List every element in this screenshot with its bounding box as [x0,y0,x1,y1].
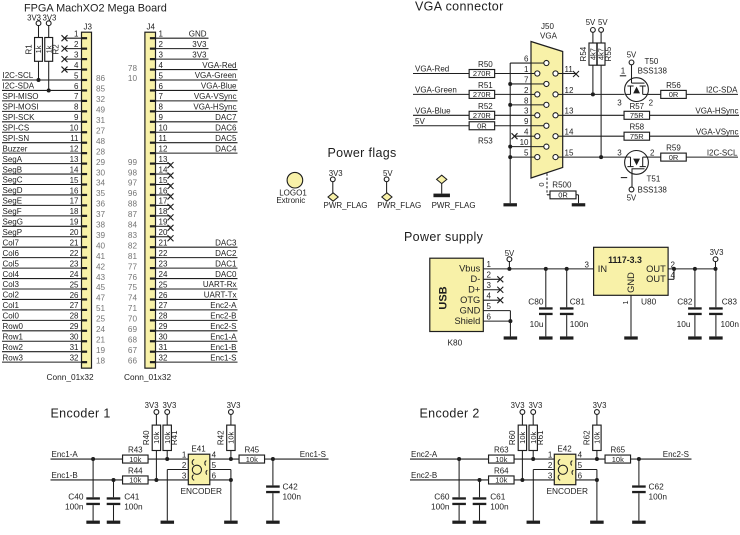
svg-text:10k: 10k [246,455,258,464]
svg-text:DAC7: DAC7 [215,113,237,122]
svg-text:R43: R43 [128,446,143,455]
svg-text:11: 11 [159,134,168,143]
svg-text:3V3: 3V3 [162,401,176,410]
J4 pin 21 DAC3 [150,246,156,248]
svg-text:10k: 10k [152,432,161,444]
capacitor C81 100n [565,267,569,271]
svg-text:51: 51 [96,304,106,313]
svg-text:SegB: SegB [3,165,23,174]
encoder E41 pin4 wire [210,458,239,460]
svg-text:15: 15 [159,176,168,185]
svg-text:10: 10 [520,138,529,147]
J4 pin 24 DAC0 [150,277,156,279]
svg-text:SegC: SegC [3,176,23,185]
svg-text:16: 16 [159,186,168,195]
encoder E42 pin2 ground wire [533,469,554,471]
svg-text:Buzzer: Buzzer [3,144,28,153]
svg-text:10k: 10k [129,455,141,464]
svg-text:0R: 0R [477,121,487,130]
svg-text:10k: 10k [593,432,602,444]
J50 pin 14 circle [553,134,558,139]
encoder E41 symbol [192,465,201,474]
svg-text:VGA: VGA [540,32,558,41]
svg-text:Enc1-S: Enc1-S [210,353,236,362]
T51 gate dash [621,177,627,179]
J3 pin 19 SegG [82,225,88,227]
svg-text:3: 3 [182,471,187,480]
svg-text:3: 3 [524,107,529,116]
svg-text:21: 21 [70,239,79,248]
svg-text:78: 78 [128,64,138,73]
svg-text:28: 28 [96,147,106,156]
resistor R64 10k [489,476,515,484]
svg-text:42: 42 [96,262,106,271]
label 5V to R53 [413,125,469,127]
junction C40 [91,457,95,461]
svg-text:R50: R50 [478,60,493,69]
svg-text:1117-3.3: 1117-3.3 [608,255,642,265]
resistor R53 0R [469,122,495,130]
J50 pin 11 circle [553,71,558,76]
ground (U80) [624,336,638,339]
J4 pin 32 Enc1-S [150,361,156,363]
svg-text:PWR_FLAG: PWR_FLAG [432,201,476,210]
svg-text:PWR_FLAG: PWR_FLAG [377,201,421,210]
label Enc2-S [639,458,692,460]
svg-text:25: 25 [159,280,168,289]
svg-text:Vbus: Vbus [459,264,481,274]
wire pin15 to T51 [563,156,626,158]
svg-text:OUT: OUT [646,274,666,284]
J3 pin 23 Col5 [82,267,88,269]
svg-text:28: 28 [159,312,168,321]
svg-text:R54: R54 [579,46,588,61]
svg-text:R40: R40 [142,430,151,445]
svg-text:39: 39 [96,231,106,240]
svg-text:6: 6 [74,82,79,91]
J50 pin 3 circle [535,113,540,118]
svg-text:18: 18 [70,207,79,216]
svg-text:2: 2 [548,461,553,470]
wire pin7 [510,83,531,85]
svg-text:IN: IN [598,264,607,274]
svg-text:VGA-Green: VGA-Green [195,71,237,80]
J3 pin 30 Row1 [82,340,88,342]
svg-text:Enc2-B: Enc2-B [210,312,236,321]
label VGA-Green [413,93,469,95]
svg-text:37: 37 [96,210,106,219]
J4 pin 28 Enc2-B [150,319,156,321]
J4 pin 25 UART-Rx [150,288,156,290]
svg-text:270R: 270R [473,90,492,99]
svg-text:I2C-SCL: I2C-SCL [707,148,738,157]
U80 OUT wires [668,268,715,270]
encoder E42 body [554,454,576,485]
resistor R43 10k [123,455,149,463]
svg-text:75R: 75R [630,132,644,141]
svg-text:Col5: Col5 [3,259,20,268]
svg-text:2: 2 [649,98,654,107]
label Enc1-B [51,479,123,481]
J4 pin 15 NC [150,183,156,185]
svg-text:5: 5 [159,71,164,80]
encoder E41 pin5/6 ground wires [210,469,231,471]
ground (K80) [504,336,518,339]
svg-text:49: 49 [96,106,106,115]
svg-text:15: 15 [70,176,79,185]
ground (VGA bus) [503,203,517,206]
J4 pin 29 Enc2-S [150,330,156,332]
svg-text:6: 6 [524,54,529,63]
resistor R62 10k [596,414,598,425]
svg-text:DAC6: DAC6 [215,123,237,132]
label Enc1-S [273,458,329,460]
svg-text:5V: 5V [586,18,596,27]
J3 pin 13 SegA [82,163,88,165]
svg-text:98: 98 [128,168,138,177]
svg-text:77: 77 [128,262,138,271]
capacitor C61 100n [479,480,481,497]
J3 pin 32 Row3 [82,361,88,363]
svg-text:R65: R65 [610,446,625,455]
svg-text:6: 6 [159,82,164,91]
svg-text:C40: C40 [68,492,84,502]
svg-text:30: 30 [159,333,168,342]
J4 pin 20 NC [150,236,156,238]
svg-text:100n: 100n [65,502,84,512]
ground (E42 pin5/6) [590,521,604,524]
resistor R52 270R [469,111,495,119]
label Enc2-B [410,479,488,481]
svg-text:T51: T51 [647,174,661,183]
svg-text:DAC3: DAC3 [215,238,237,247]
J3 pin 26 Col2 [82,298,88,300]
J3 pin 2 NC [82,48,88,50]
capacitor C42 100n [272,459,274,485]
svg-text:SegE: SegE [3,197,23,206]
junction C61 [478,478,482,482]
svg-text:83: 83 [128,231,138,240]
J3 pin 4 NC [82,68,88,70]
svg-text:66: 66 [128,356,138,365]
svg-text:87: 87 [128,210,138,219]
svg-text:UART-Rx: UART-Rx [203,280,237,289]
svg-text:C61: C61 [490,492,506,502]
svg-text:11: 11 [70,134,79,143]
svg-text:7: 7 [524,75,529,84]
svg-text:R63: R63 [494,446,509,455]
J3 pin 6 I2C-SDA [82,89,88,91]
junction R55/pin15 wire [599,155,603,159]
svg-text:3V3: 3V3 [145,401,159,410]
J3 pin 21 Col7 [82,246,88,248]
svg-text:0: 0 [537,182,546,186]
svg-text:10: 10 [70,124,79,133]
svg-text:10: 10 [159,124,168,133]
svg-text:10k: 10k [495,455,507,464]
encoder E42 pin5/6 ground wires [576,469,597,471]
transistor T51 BSS138 [625,151,649,175]
label I2C-SDA [686,93,738,95]
J4 pin 18 NC [150,215,156,217]
svg-text:8: 8 [74,103,79,112]
svg-text:Enc1-S: Enc1-S [300,450,326,459]
capacitor C82 10u [693,267,697,271]
connector J4 body [145,32,156,368]
wire pin5 [510,156,531,158]
svg-text:25: 25 [96,315,106,324]
svg-text:32: 32 [159,353,168,362]
svg-text:3V3: 3V3 [227,401,241,410]
svg-text:99: 99 [128,158,138,167]
J50 pin 6 circle [544,60,549,65]
J3 pin 15 SegC [82,183,88,185]
svg-text:3V3: 3V3 [528,401,542,410]
svg-text:USB: USB [438,286,450,309]
wire pin13 to R57 [563,114,624,116]
svg-text:4: 4 [74,61,79,70]
svg-text:C62: C62 [649,482,665,492]
svg-text:Conn_01x32: Conn_01x32 [47,372,94,382]
svg-text:10k: 10k [612,455,624,464]
svg-text:7: 7 [74,92,79,101]
capacitor C40 100n [92,459,94,497]
svg-text:SPI-SN: SPI-SN [3,134,30,143]
J3 pin 7 SPI-MISO [82,100,88,102]
svg-text:SPI-SCK: SPI-SCK [3,113,36,122]
pin4 no-connect [515,135,532,137]
resistor R59 0R [647,156,661,158]
svg-text:R500: R500 [552,180,572,189]
svg-text:I2C-SDA: I2C-SDA [706,86,738,95]
resistor R54 4k7 [592,32,594,43]
wire R500 to ground [576,194,579,196]
svg-text:UART-Tx: UART-Tx [204,291,237,300]
svg-text:23: 23 [70,259,79,268]
junction C41 [112,478,116,482]
junction C62 [631,458,639,460]
svg-text:Power flags: Power flags [328,146,397,160]
svg-text:96: 96 [128,189,138,198]
J3 pin 5 I2C-SCL [82,79,88,81]
svg-text:SPI-MOSI: SPI-MOSI [3,103,39,112]
svg-text:270R: 270R [473,69,492,78]
svg-text:5: 5 [524,149,529,158]
J3 pin 1 NC [82,37,88,39]
junction R1/I2C-SCL [37,78,41,82]
svg-text:C80: C80 [528,297,544,307]
svg-text:86: 86 [96,74,106,83]
svg-text:70: 70 [128,315,138,324]
svg-text:ENCODER: ENCODER [547,486,589,496]
svg-text:31: 31 [159,343,168,352]
svg-text:I2C-SDA: I2C-SDA [3,82,35,91]
wire pin14 to R58 [563,135,624,137]
transistor T50 BSS138 [625,78,649,102]
encoder E41 pin2 ground wire [167,469,188,471]
svg-text:R42: R42 [217,430,226,445]
svg-text:PWR_FLAG: PWR_FLAG [324,201,368,210]
svg-text:22: 22 [159,249,168,258]
svg-text:6: 6 [578,471,583,480]
svg-text:C82: C82 [677,297,693,307]
svg-text:76: 76 [128,273,138,282]
svg-text:R52: R52 [478,102,493,111]
svg-text:J3: J3 [84,23,93,32]
J4 pin 30 Enc1-A [150,340,156,342]
svg-text:6: 6 [487,312,492,321]
svg-text:32: 32 [96,95,106,104]
J50 pin 8 circle [544,102,549,107]
svg-text:R45: R45 [244,446,259,455]
svg-text:3: 3 [585,260,590,269]
J4 pin 10 DAC6 [150,131,156,133]
J4 pin 22 DAC2 [150,257,156,259]
label VGA-HSync [650,114,740,116]
svg-text:34: 34 [96,179,106,188]
svg-text:10u: 10u [530,319,544,329]
svg-text:5V: 5V [627,194,637,203]
J50 pin 10 circle [544,144,549,149]
svg-text:9: 9 [159,113,164,122]
svg-text:2: 2 [487,271,492,280]
svg-text:Enc1-A: Enc1-A [210,332,237,341]
resistor R61 10k [532,414,534,425]
svg-text:5V: 5V [627,51,637,60]
J3 pin 3 NC [82,58,88,60]
svg-text:32: 32 [70,353,79,362]
svg-text:23: 23 [159,259,168,268]
svg-text:Conn_01x32: Conn_01x32 [124,372,171,382]
svg-text:47: 47 [96,294,106,303]
J4 pin 4 VGA-Red [150,68,156,70]
svg-text:VGA-HSync: VGA-HSync [695,107,738,116]
svg-text:SegG: SegG [3,218,23,227]
regulator U80 1117-3.3 body [594,247,669,295]
svg-text:OTG: OTG [460,295,480,305]
svg-text:36: 36 [96,200,106,209]
svg-text:31: 31 [96,116,106,125]
J4 pin 1 GND [150,37,156,39]
svg-text:J4: J4 [147,23,156,32]
svg-text:VGA-VSync: VGA-VSync [194,92,237,101]
J4 pin 3 3V3 [150,58,156,60]
J4 pin 31 Enc1-B [150,351,156,353]
ground (E42 pin2) [527,521,541,524]
svg-text:10u: 10u [677,319,691,329]
svg-text:13: 13 [565,107,574,116]
T51 5V supply [631,169,633,187]
J3 pin 27 Col1 [82,309,88,311]
J3 pin 25 Col3 [82,288,88,290]
svg-text:DAC0: DAC0 [215,270,237,279]
svg-text:12: 12 [159,144,168,153]
resistor R44 10k [123,476,149,484]
svg-text:20: 20 [159,228,168,237]
svg-text:Row2: Row2 [3,343,24,352]
svg-text:29: 29 [70,322,79,331]
svg-text:Power supply: Power supply [404,230,484,244]
svg-text:10k: 10k [518,432,527,444]
J4 pin 12 DAC4 [150,152,156,154]
svg-text:13: 13 [159,155,168,164]
svg-text:Enc1-B: Enc1-B [52,471,78,480]
J50 pin 1 circle [535,71,540,76]
J4 pin 13 NC [150,163,156,165]
svg-text:1: 1 [182,451,187,460]
VGA ground bus [509,63,511,203]
svg-text:Row1: Row1 [3,332,24,341]
svg-text:Col7: Col7 [3,238,20,247]
svg-text:16: 16 [70,186,79,195]
J3 pin 18 SegF [82,215,88,217]
svg-text:5V: 5V [415,117,425,126]
svg-text:Encoder 2: Encoder 2 [420,406,480,420]
J4 pin 2 3V3 [150,48,156,50]
encoder E42 pin4 wire [576,458,605,460]
svg-text:SPI-MISO: SPI-MISO [3,92,39,101]
J3 pin 31 Row2 [82,351,88,353]
svg-text:Enc2-A: Enc2-A [210,301,237,310]
junction C60 [457,457,461,461]
svg-text:SegF: SegF [3,207,22,216]
svg-text:R51: R51 [478,81,493,90]
T50 gate dash [620,75,626,77]
svg-text:R1: R1 [24,44,33,55]
svg-text:DAC1: DAC1 [215,259,237,268]
svg-text:9: 9 [74,113,79,122]
svg-text:R53: R53 [478,136,493,145]
svg-text:8: 8 [159,103,164,112]
svg-text:88: 88 [128,200,138,209]
svg-text:VGA-Red: VGA-Red [415,65,449,74]
svg-text:3V3: 3V3 [192,40,207,49]
svg-text:29: 29 [159,322,168,331]
J4 pin 27 Enc2-A [150,309,156,311]
svg-text:DAC2: DAC2 [215,249,237,258]
svg-text:GND: GND [626,272,636,293]
svg-text:10k: 10k [495,476,507,485]
svg-text:48: 48 [96,137,106,146]
J4 pin 9 DAC7 [150,121,156,123]
K80 GND pin wire [483,310,510,312]
svg-text:75: 75 [128,283,138,292]
J50 pin 9 circle [544,123,549,128]
J4 pin 19 NC [150,225,156,227]
J3 pin 8 SPI-MOSI [82,110,88,112]
svg-text:Col6: Col6 [3,249,20,258]
capacitor C80 10u [544,267,548,271]
svg-text:5: 5 [578,461,583,470]
svg-text:ENCODER: ENCODER [181,486,223,496]
svg-text:VGA-Green: VGA-Green [415,86,457,95]
svg-text:31: 31 [70,343,79,352]
svg-text:DAC5: DAC5 [215,134,237,143]
svg-text:5: 5 [487,302,492,311]
svg-text:69: 69 [128,325,138,334]
J4 pin 17 NC [150,204,156,206]
svg-text:J50: J50 [541,22,554,31]
svg-text:2: 2 [182,461,187,470]
svg-text:27: 27 [70,301,79,310]
svg-text:85: 85 [96,85,106,94]
svg-text:14: 14 [159,165,168,174]
ground (E41 pin2) [161,521,175,524]
junction R2/I2C-SDA [47,88,51,92]
svg-text:25: 25 [70,280,79,289]
label Enc2-A [410,458,488,460]
resistor R1 1k [38,26,40,38]
